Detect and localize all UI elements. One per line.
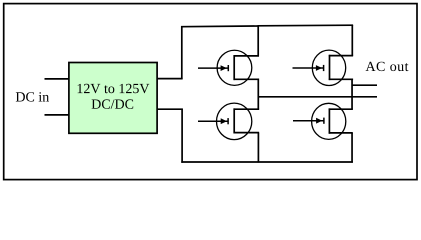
transistor Q3 bottom-left MOSFET — [198, 103, 259, 140]
wire negative rail drop — [181, 109, 183, 163]
wire U1 top output — [157, 78, 183, 80]
transistor Q2 top-right MOSFET — [293, 50, 354, 85]
wire top bus right segment — [258, 24, 354, 27]
wire bottom bus — [181, 161, 353, 163]
wire Q1 drain riser — [257, 26, 259, 57]
wire Q4 source drop — [351, 133, 353, 163]
node AC out — [366, 62, 409, 71]
DC/DC converter block U1 12V to 125V — [69, 63, 157, 134]
wire Q2 drain riser — [351, 25, 353, 56]
wire AC out lower from left midpoint — [258, 96, 377, 98]
wire top bus left segment — [181, 25, 259, 28]
wire left midpoint Q1 source to Q3 drain — [257, 79, 259, 110]
wire DC input bottom — [45, 114, 70, 116]
wire AC out upper from right midpoint — [352, 84, 377, 86]
wire U1 bottom output — [157, 108, 183, 110]
transistor Q4 bottom-right MOSFET — [293, 103, 353, 139]
transistor Q1 top-left MOSFET — [198, 50, 259, 85]
wire positive rail riser — [181, 26, 183, 79]
node DC in — [16, 92, 49, 101]
wire right midpoint Q2 source to Q4 drain — [351, 79, 353, 110]
wire DC input top — [45, 78, 70, 80]
wire Q3 source drop — [257, 133, 259, 163]
